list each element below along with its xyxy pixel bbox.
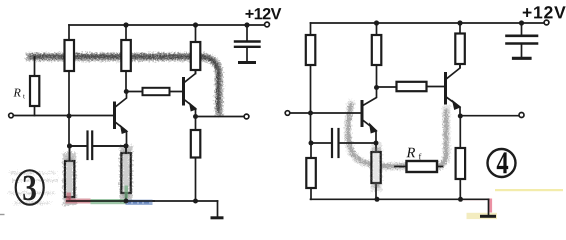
wire re-stamp: bottom rail through watermark: [66, 200, 155, 202]
lower-left resistor (bias lower leg): [65, 146, 74, 201]
resistor R1 (left bias) body: [65, 25, 75, 116]
node on rail at R3': [457, 20, 462, 25]
fuzz under lower resistors circuit 3: [70, 152, 127, 199]
node: cap right: [124, 144, 129, 149]
tiny page mark bottom-left: [0, 214, 5, 216]
circled 4 label: [488, 149, 516, 177]
node: input / R1 chain junction: [67, 114, 72, 119]
yellow highlight marks circuit 4: [463, 189, 563, 219]
node on rail at R2': [374, 20, 379, 25]
node on rail at R2: [123, 22, 128, 27]
emitter resistor (under Q4): [456, 116, 466, 199]
node on rail at filter cap: [244, 22, 249, 27]
wire: R1 chain down to cap node: [68, 116, 70, 146]
emitter resistor (under Q3, highlighted): [371, 143, 380, 199]
input terminal circuit 3: [9, 113, 14, 118]
filter capacitor circuit 4: [507, 23, 538, 58]
node re-stamp: cap left: [67, 144, 72, 149]
wire: input to Q1 base: [13, 115, 113, 117]
node on rail at filter cap': [519, 20, 524, 25]
resistor R2 (middle bias) body: [121, 25, 131, 92]
resistor R1' (left bias): [306, 23, 316, 113]
pink highlight on ground stub: [489, 199, 492, 213]
wire: output to terminal circuit 3: [198, 116, 244, 118]
horizontal resistor (Q1 collector to Q2 base): [129, 88, 183, 95]
node: cap right / Q3 emitter junction: [374, 141, 379, 146]
output terminal circuit 3: [244, 114, 249, 119]
wire: bottom rail circuit 3: [70, 200, 218, 202]
coupling capacitor circuit 3: [70, 132, 127, 160]
node: Q4 emitter / output junction: [458, 114, 463, 119]
wire: bottom rail circuit 4: [311, 198, 489, 200]
node: bottom rail at x377: [375, 197, 380, 202]
wire: R1' chain down to cap node: [310, 113, 312, 143]
node: cap left: [67, 144, 72, 149]
wire: top rail circuit 4: [311, 22, 545, 24]
input terminal circuit 4: [285, 111, 290, 116]
transistor Q1: [115, 92, 128, 147]
watermark RGB bars circuit 3: [66, 186, 156, 206]
output terminal circuit 4: [519, 113, 524, 118]
circled 3 label: [16, 170, 44, 204]
+12V terminal circuit 4: [544, 20, 549, 25]
wire: +12V terminal stub + terminal circle circuit 3: [265, 22, 270, 27]
lower-left resistor circuit 4: [306, 143, 316, 199]
resistor R2' (middle bias): [372, 23, 382, 88]
transistor Q4: [446, 65, 461, 117]
wire: top rail circuit 3: [69, 24, 265, 26]
+12V label circuit 3: [245, 8, 281, 19]
coupling capacitor circuit 4: [311, 129, 376, 157]
wire re-stamp: cap leads: [70, 146, 127, 160]
node: Q2 emitter / output junction: [193, 114, 198, 119]
resistor Rt (input termination): [30, 57, 39, 116]
node on rail at R3: [193, 22, 198, 27]
horizontal resistor (Q3 collector to Q4 base): [379, 82, 444, 91]
wire: output to terminal circuit 4: [463, 115, 520, 117]
label Rt: [13, 89, 20, 97]
emitter resistor (under Q2): [191, 117, 201, 202]
+12V label circuit 4: [523, 6, 566, 18]
wire: input to Q3 base: [290, 112, 361, 114]
lower-right resistor (emitter leg Q1): [121, 146, 130, 201]
resistor R3 (collector load Q2): [191, 25, 201, 74]
node re-stamp: cap right: [124, 144, 129, 149]
watermark red: [66, 199, 91, 204]
label Rf: [406, 148, 415, 157]
node: Q3 collector / R2' / Rh' junction: [374, 85, 379, 90]
watermark green: [91, 199, 126, 204]
node: Q1 collector / R2 / Rh junction: [124, 89, 129, 94]
watermark blue: [126, 200, 153, 205]
node: cap left circuit 4: [309, 141, 314, 146]
faint gray smudges near circled 3: [9, 173, 58, 203]
highlighted feedback path (gray fuzz) circuit 4: [348, 104, 447, 186]
highlighted feedback path (gray fuzz) circuit 3: [30, 56, 219, 113]
transistor Q2: [184, 70, 197, 117]
node: bottom rail at x195.5: [193, 199, 198, 204]
ground circuit 3: [212, 201, 222, 218]
node: bottom rail at x126: [124, 199, 129, 204]
resistor R3' (collector load Q4): [455, 23, 465, 68]
filter capacitor circuit 3: [235, 25, 260, 63]
transistor Q3: [362, 88, 377, 144]
resistor Rf (feedback): [395, 161, 443, 172]
node: bottom rail at x460.5: [458, 197, 463, 202]
ground circuit 4: [482, 199, 495, 216]
fuzz overlay on lower resistors circuit 3: [70, 153, 127, 197]
node: input / R1' junction: [308, 111, 313, 116]
